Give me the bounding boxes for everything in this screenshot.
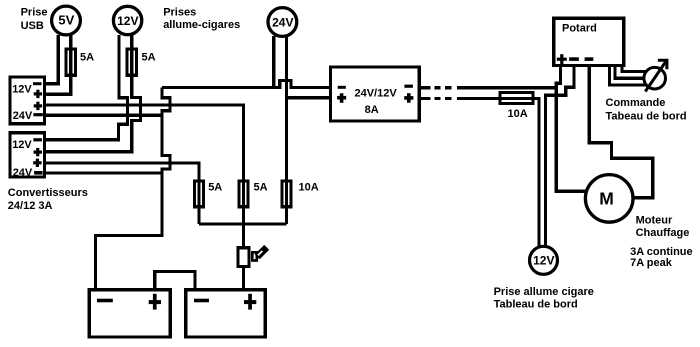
plug P1 5V USB outlet circle (52, 6, 81, 35)
wire U3 right plus output (dashed section) through fuse F6 to dashboard socket (419, 98, 539, 247)
svg-text:5A: 5A (142, 52, 156, 64)
svg-text:12V: 12V (12, 83, 32, 95)
wire top minus distribution with hop over 24V feed lane (162, 81, 331, 88)
wire fuse bottoms common bus (199, 222, 287, 225)
wire branch to converter U3 plus input (287, 96, 332, 99)
svg-text:5V: 5V (58, 13, 74, 28)
svg-text:8A: 8A (365, 104, 379, 116)
label Prise USB (21, 7, 48, 32)
converter U2 24/12 box (10, 133, 45, 179)
wire converter U1 24V plus to fuse F3 (long horizontal) (44, 105, 244, 248)
wire 24V plug left pin down to minus wire (272, 36, 275, 88)
svg-text:Prise allume cigare: Prise allume cigare (494, 286, 594, 298)
plug P3 24V cigar-lighter outlet circle (268, 8, 297, 37)
svg-text:Tableau de bord: Tableau de bord (494, 299, 578, 311)
wire converter U2 24V plus to fuse F4 (44, 163, 199, 224)
label Prise allume cigare Tableau de bord (494, 286, 594, 311)
wire Potard pin to dashboard knob (inner) (622, 65, 646, 72)
battery B1 12V (89, 290, 170, 337)
wire converter U2 24V minus to minus bus (44, 171, 162, 174)
svg-text:12V: 12V (117, 14, 138, 28)
svg-text:Moteur: Moteur (636, 215, 673, 227)
svg-text:5A: 5A (208, 182, 222, 194)
fuse F4 5A (195, 181, 204, 207)
wire Potard pin to dashboard knob (middle) (615, 65, 644, 78)
fuse F6 10A (500, 93, 533, 104)
control knob U5 circle with arrow (dashboard command) (644, 60, 667, 91)
svg-text:24V: 24V (13, 167, 33, 179)
svg-text:Commande: Commande (606, 97, 666, 109)
svg-text:12V: 12V (533, 254, 554, 268)
svg-text:Chauffage: Chauffage (636, 227, 690, 239)
label Moteur Chauffage (636, 215, 690, 239)
svg-text:5A: 5A (80, 52, 94, 64)
plug P4 12V dashboard socket circle (530, 246, 558, 274)
svg-text:24V: 24V (272, 16, 293, 30)
fuse F5 10A (282, 181, 291, 207)
wire 12V plug left pin to converter U2 12V minus (lane jogs) (44, 35, 127, 140)
converter U3 24V/12V 8A box (331, 67, 420, 121)
wire minus bus vertical with jogs down to battery B1 minus (96, 88, 171, 290)
svg-text:allume-cigares: allume-cigares (163, 19, 240, 31)
wire battery B1 plus to battery B2 minus (series link) (155, 272, 195, 290)
wire 5V plug right pin through fuse F1 to converter U1 12V plus (44, 35, 71, 94)
wire Potard minus2 to heater motor right (589, 65, 653, 198)
svg-text:7A peak: 7A peak (630, 257, 673, 269)
switch S1 battery master switch (238, 247, 267, 266)
wire 12V plug right pin through fuse F2 to converter U2 12V plus (lane jogs) (44, 35, 141, 152)
label 3A continue 7A peak (630, 246, 693, 269)
converter U1 24/12 box (10, 77, 45, 124)
potentiometer U4 Potard box (554, 18, 624, 65)
svg-text:12V: 12V (12, 139, 32, 151)
motor M1 heater blower (585, 175, 633, 223)
label Commande Tabeau de bord (606, 97, 687, 123)
svg-text:Potard: Potard (562, 23, 597, 35)
fuse F2 5A (127, 49, 137, 75)
wire converter U1 24V minus to minus bus (44, 114, 162, 117)
label Prises allume-cigares (163, 7, 240, 31)
svg-text:Prise: Prise (21, 7, 48, 19)
wire Potard pin to dashboard knob (outer) (610, 65, 647, 85)
plug P2 12V cigar-lighter outlet circle (113, 6, 141, 34)
svg-text:M: M (599, 189, 614, 209)
fuse F3 5A (239, 181, 248, 207)
svg-text:Prises: Prises (163, 7, 196, 19)
svg-text:10A: 10A (299, 182, 319, 194)
wire 5V plug left pin to converter U1 12V minus (44, 35, 58, 84)
svg-text:24V: 24V (13, 110, 33, 122)
svg-text:Tabeau de bord: Tabeau de bord (606, 110, 687, 122)
svg-text:24V/12V: 24V/12V (354, 87, 397, 99)
svg-text:10A: 10A (508, 108, 528, 120)
fuse F1 5A (66, 49, 76, 75)
svg-text:USB: USB (21, 20, 44, 32)
wire Potard minus1 down to dashboard 12V socket (546, 65, 575, 247)
wire Potard plus down to heater motor left (556, 65, 586, 191)
label Convertisseurs 24/12 3A (8, 187, 88, 212)
battery B2 12V (186, 290, 265, 337)
svg-text:5A: 5A (254, 182, 268, 194)
wire U3 right minus output (dashed section) to motor feed lane (419, 86, 556, 89)
wire 24V plug right pin down to fuse F5 (285, 36, 288, 224)
wire switch S1 to battery B2 plus (242, 266, 245, 289)
svg-text:24/12 3A: 24/12 3A (8, 200, 53, 212)
svg-text:Convertisseurs: Convertisseurs (8, 187, 88, 199)
